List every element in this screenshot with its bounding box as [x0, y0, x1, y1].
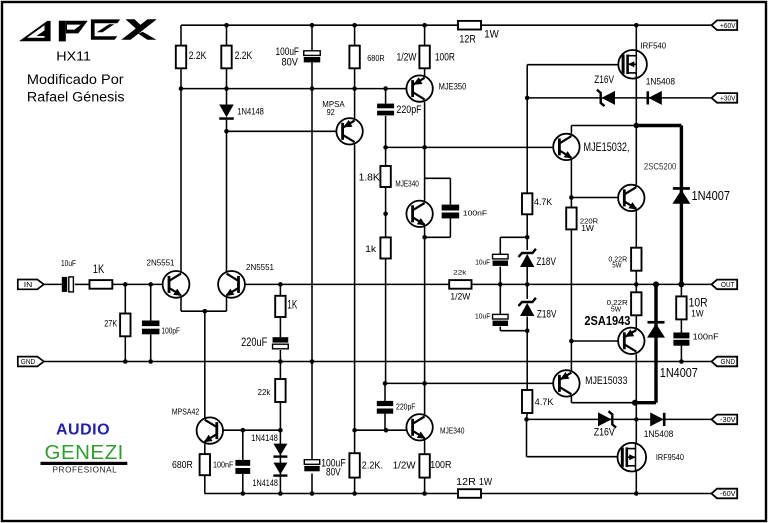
wire 10uF branch upper [500, 236, 527, 238]
label IRF9540 [656, 452, 684, 462]
logo GENEZI [45, 441, 124, 464]
svg-text:100nF: 100nF [693, 333, 719, 342]
wire 10uF branch lower [500, 330, 527, 332]
label IRF540 [641, 40, 667, 50]
transistor MJE15032 Q6 [553, 134, 579, 160]
label 4.7K R13 [535, 397, 555, 408]
label 1W R19 [479, 476, 492, 488]
resistor 4.7K R13 [522, 390, 532, 413]
junction node OUT bold lower [653, 281, 659, 287]
junction node bus88 / 680R MPSA92 [352, 86, 357, 91]
junction node 100pF top [148, 282, 153, 287]
resistor 680R R14 [200, 454, 210, 475]
wire 220uF C9 bottom lead [279, 350, 281, 362]
wire Q2 collector [226, 131, 228, 271]
wire MJE350 emitter [424, 102, 426, 148]
svg-text:Z18V: Z18V [536, 256, 556, 268]
label 0,22R R15b [607, 298, 629, 307]
svg-text:5W: 5W [612, 261, 622, 270]
wire IRF540 drain [635, 25, 637, 50]
svg-text:Modificado Por: Modificado Por [27, 72, 124, 87]
svg-text:1W: 1W [484, 28, 499, 40]
svg-text:2.2K: 2.2K [235, 50, 253, 62]
label MJE15032 [584, 142, 630, 154]
wire MJE15033 emitter down [570, 397, 572, 403]
label 1W R17 [691, 309, 703, 320]
label 10uF input [61, 258, 76, 268]
svg-text:PROFESIONAL: PROFESIONAL [53, 466, 118, 475]
label 0,22R R15a [608, 255, 627, 264]
resistor 220R R11 [566, 208, 576, 230]
svg-text:IRF9540: IRF9540 [656, 452, 684, 462]
capacitor 220uF C9 [273, 337, 289, 349]
wire IRF540 gate [527, 65, 621, 98]
label 1N5408 D3 [646, 76, 675, 87]
wire 680R R14 bottom lead [204, 475, 206, 493]
junction node OUT 0.22R [634, 282, 639, 287]
wire OUT row [472, 283, 712, 285]
mosfet IRF9540 Q13 [618, 443, 647, 472]
label Z18V D5 [537, 309, 557, 321]
wire 220pF C10 leads [384, 383, 386, 430]
svg-text:10uF: 10uF [61, 258, 76, 268]
junction node base row 220pF [383, 381, 388, 386]
wire Q2 emitter [226, 298, 228, 312]
svg-text:12R: 12R [456, 476, 476, 488]
label MJE15033 [585, 375, 627, 387]
label 1/2W R10 [450, 292, 470, 302]
junction node GND 220uF 22k [278, 359, 283, 364]
label 100R R18 [430, 459, 452, 471]
svg-text:680R: 680R [172, 459, 193, 471]
diode bold 1N4007 D7 [647, 321, 665, 338]
wire MPSA42 base [223, 429, 280, 431]
svg-text:1W: 1W [691, 309, 703, 320]
svg-text:2N5551: 2N5551 [147, 258, 175, 268]
resistor 27K [120, 314, 130, 337]
APEX logo letter A [19, 21, 51, 41]
title Modificado Por [27, 72, 124, 87]
resistor 1K input [90, 280, 113, 289]
tag +60V [712, 20, 738, 30]
svg-text:100R: 100R [435, 51, 455, 63]
wire after input cap [75, 283, 90, 285]
wire 10R leads [680, 284, 682, 332]
svg-text:2N5551: 2N5551 [246, 262, 274, 272]
junction node rail IRF9540 [634, 491, 639, 496]
label 1N5408 D9 [644, 429, 674, 440]
svg-text:92: 92 [327, 108, 336, 117]
svg-text:OUT: OUT [721, 282, 735, 289]
label 2N5551 Q2 [246, 262, 274, 272]
svg-text:1K: 1K [93, 264, 105, 276]
junction node bold upper [634, 123, 640, 129]
diode bold 1N4007 D6 [672, 187, 690, 204]
svg-text:1K: 1K [287, 300, 297, 312]
svg-text:IRF540: IRF540 [641, 40, 667, 50]
svg-text:80V: 80V [282, 56, 299, 68]
resistor 0.22R R15b [631, 292, 641, 315]
resistor 1K R8 [275, 296, 285, 317]
wire 680R R3 leads [354, 25, 356, 88]
wire Q1 collector [180, 89, 182, 272]
wire input to base [112, 283, 163, 285]
diode 1N4148 D11 [273, 463, 287, 477]
resistor 4.7K R12 [522, 193, 532, 214]
label 80V bottom [326, 467, 341, 479]
junction node -30V 4.7K gate [524, 417, 529, 422]
svg-text:2.2K: 2.2K [189, 50, 207, 62]
wire IRF540 source [635, 78, 637, 125]
APEX logo letter X [121, 19, 157, 40]
svg-text:MJE15033: MJE15033 [585, 375, 627, 387]
svg-text:MJE350: MJE350 [439, 82, 467, 92]
wire 2SA1943 base [571, 340, 618, 342]
label 4.7K R12 [534, 197, 553, 208]
label 680R R3 [367, 54, 385, 63]
tag GND left [18, 357, 44, 367]
label 100R R5 [435, 51, 455, 63]
svg-text:MJE340: MJE340 [395, 178, 419, 188]
wire 1K R8 leads [279, 284, 281, 337]
label 2.2K R16 [362, 460, 383, 472]
label Z18V D4 [536, 256, 556, 268]
svg-text:+60V: +60V [720, 23, 736, 30]
svg-text:1/2W: 1/2W [397, 51, 417, 63]
svg-text:12R: 12R [459, 34, 475, 46]
junction node GND 27K [123, 359, 128, 364]
wire bias chain bottom [526, 331, 528, 390]
svg-text:1k: 1k [365, 244, 377, 254]
wire 100nF C5 leads [242, 430, 244, 493]
junction node top rail / IRF540 drain [634, 23, 639, 28]
wire 2SA1943 collector [635, 354, 637, 419]
junction node 220pF / 1.8K [383, 145, 388, 150]
junction node GND 100nF right [679, 359, 684, 364]
zener Z16V D2 [597, 90, 615, 106]
capacitor 100uF 80V bottom [304, 460, 319, 472]
label 1N4148 D10 [251, 433, 278, 443]
tag +30V [712, 93, 738, 103]
resistor 2.2K R16 [349, 453, 359, 477]
label 1.8K R6 [359, 173, 381, 184]
tag -60V [712, 489, 738, 499]
label 1k R7 [365, 244, 377, 254]
label 220R R11 [580, 216, 599, 225]
wire 1N4148 D1 leads [226, 89, 228, 132]
APEX logo letter E [91, 19, 120, 39]
label 2SC5200 [644, 162, 677, 172]
junction node rail 100R [422, 491, 427, 496]
svg-text:10R: 10R [689, 298, 708, 310]
svg-text:5W: 5W [611, 304, 622, 313]
svg-text:1.8K: 1.8K [359, 173, 381, 184]
junction node top rail / 100R [422, 23, 427, 28]
wire 2.2K R1 leads [180, 25, 182, 88]
diode 1N4148 D10 [273, 444, 287, 458]
transistor MPSA92 Q3 [336, 118, 362, 144]
wire Q1 emitter [180, 298, 182, 312]
label 1N4148 D1 [237, 107, 264, 117]
label 10R R17 [689, 298, 708, 310]
wire MJE15032 emitter down [570, 160, 572, 208]
junction node bold lower join [632, 400, 638, 406]
svg-text:GND: GND [21, 359, 36, 366]
label 2.2K R1 [189, 50, 207, 62]
svg-text:100nF: 100nF [213, 460, 233, 470]
diode 1N5408 D9 [650, 412, 664, 426]
wire IRF9540 drain [635, 419, 637, 443]
wire MPSA42 emitter [204, 444, 206, 454]
junction node MPSA42 base 22k [278, 428, 283, 433]
label 1W R11 [581, 223, 594, 233]
junction node bus88 / R1 [179, 86, 184, 91]
resistor 680R R3 [349, 46, 359, 69]
label 27K [104, 319, 117, 329]
junction node MPSA42 base 100nF [241, 428, 246, 433]
wire 1k R7 leads [385, 214, 387, 384]
svg-text:1/2W: 1/2W [450, 292, 470, 302]
label 10uF C8 [475, 311, 491, 320]
svg-text:1N4007: 1N4007 [692, 189, 731, 203]
junction node D1 cathode junction [224, 129, 229, 134]
wire LTP tail [204, 311, 206, 417]
wire GND rail [44, 361, 712, 363]
junction node GND 100uF bus [310, 359, 315, 364]
wire +60V top rail left segment [181, 24, 458, 26]
resistor 12R R19 [458, 489, 481, 498]
svg-text:Z18V: Z18V [537, 309, 557, 321]
transistor MPSA42 Q11 [197, 417, 223, 443]
label MPSA 92a [322, 100, 345, 109]
tag GND right [712, 357, 738, 367]
resistor 2.2K R1 [176, 46, 186, 69]
svg-text:22k: 22k [453, 269, 467, 276]
wire 0.22R R15 leads [635, 284, 637, 327]
wire 100nF C12 bottom lead [680, 345, 682, 362]
wire MJE15032 collector to bold node [571, 125, 636, 127]
label 2.2K R2 [235, 50, 253, 62]
capacitor 220pF C10 [377, 401, 393, 414]
label MPSA42 [172, 407, 200, 417]
label 220uF C9 [241, 337, 267, 349]
junction node 2SA1943 base branch [569, 339, 574, 344]
capacitor 10uF C7 [493, 254, 509, 266]
svg-text:2.2K.: 2.2K. [362, 460, 383, 472]
wire 2.2K R2 leads [226, 25, 228, 88]
zener Z18V D5 [519, 298, 536, 316]
junction node 2SC5200 base [569, 195, 574, 200]
wire feedback row mid [245, 283, 450, 285]
svg-text:10uF: 10uF [475, 311, 491, 320]
wire 2SC5200 emitter [635, 211, 637, 284]
wire 2SC5200 collector [635, 126, 637, 185]
svg-text:4.7K: 4.7K [534, 197, 553, 208]
svg-text:-30V: -30V [720, 417, 736, 424]
label 92 [327, 108, 336, 117]
junction node top rail / 2.2K R2 [224, 23, 229, 28]
label 100nF C5 [213, 460, 233, 470]
wire 100R R5 leads [424, 25, 426, 75]
svg-text:1W: 1W [581, 223, 594, 233]
junction node rail 100uF [310, 491, 315, 496]
junction node MJE350 emitter row [422, 145, 427, 150]
label 12R R19 [456, 476, 476, 488]
wire 2.2K R16 leads [354, 430, 356, 493]
resistor 22k R10 [449, 280, 471, 289]
transistor MJE340 Q5 [406, 201, 432, 227]
label 80V top [282, 56, 299, 68]
label 12R R4 [459, 34, 475, 46]
svg-text:-60V: -60V [720, 491, 736, 498]
label 1/2W R5 [397, 51, 417, 63]
wire MPSA92 emitter long [354, 145, 356, 431]
svg-text:1/2W: 1/2W [393, 460, 416, 472]
svg-text:Z16V: Z16V [594, 427, 616, 439]
svg-text:+30V: +30V [720, 96, 736, 103]
transistor MJE15033 Q9 [553, 370, 579, 396]
label 5W R15b [611, 304, 622, 313]
junction node rail 100nF C5 [241, 491, 246, 496]
junction node rail 2.2K [352, 491, 357, 496]
wire 1.8K R6 leads [385, 147, 387, 213]
wire 10uF C8 leads [499, 284, 501, 330]
svg-text:AUDIO: AUDIO [56, 422, 110, 439]
wire 100uF C11 leads [311, 362, 313, 494]
svg-text:680R: 680R [367, 54, 385, 63]
svg-text:MJE15032,: MJE15032, [584, 142, 630, 154]
svg-text:2SC5200: 2SC5200 [644, 162, 677, 172]
capacitor 100nF C5 [235, 460, 250, 474]
tag OUT [712, 280, 738, 290]
wire 22k R9 leads [279, 362, 281, 431]
label 10uF C7 [475, 257, 490, 266]
wire IRF9540 source [635, 471, 637, 493]
svg-text:IN: IN [24, 282, 33, 289]
junction node gate corner +30V [525, 96, 530, 101]
wire 100uF C3 top leads [311, 25, 313, 88]
svg-text:HX11: HX11 [56, 50, 91, 64]
resistor 12R R4 [458, 21, 481, 30]
junction node 10uF mid [498, 282, 503, 287]
capacitor 220pF C4 [377, 104, 394, 116]
label 100pF C2 [162, 326, 181, 336]
diode 1N5408 D3 [648, 91, 662, 105]
junction node GND 100pF [148, 359, 153, 364]
zener Z18V D4 [519, 249, 536, 267]
wire MJE15032 collector up [570, 126, 572, 134]
label 1W R4 [484, 28, 499, 40]
wire bold +boost to 1N4007 [636, 124, 681, 127]
resistor 22k R9 [275, 379, 285, 402]
wire 220R to drivers [570, 229, 572, 370]
svg-text:220pF: 220pF [396, 104, 421, 116]
junction node rail diode string [278, 491, 283, 496]
transistor MJE350 Q4 [406, 75, 432, 101]
diode 1N4148 D1 [219, 105, 234, 120]
label 2SA1943 [584, 314, 630, 328]
logo PROFESIONAL [53, 466, 118, 475]
wire Z18V D5 leads [526, 284, 528, 330]
wire 100pF C2 leads [150, 284, 152, 361]
svg-text:GND: GND [721, 359, 736, 366]
wire MJE340 Q10 emitter [424, 440, 426, 493]
label 5W R15a [612, 261, 622, 270]
wire 4.7K R13 bottom lead [526, 413, 529, 419]
junction node 220pF C10 bottom [384, 428, 389, 433]
wire upper bus y=88.6 [181, 88, 406, 90]
junction node 100nF bottom loop [422, 235, 427, 240]
svg-text:Z16V: Z16V [594, 74, 614, 86]
junction node -30V drain [634, 417, 638, 421]
capacitor 100nF C6 [442, 205, 460, 219]
wire MJE340 base bottom [355, 429, 407, 431]
wire VAS row y=147.4 [386, 146, 554, 148]
transistor 2SA1943 Q8 [618, 328, 644, 354]
junction node bias mid [525, 282, 530, 287]
mosfet IRF540 Q12 [618, 50, 647, 79]
label 1K input [93, 264, 105, 276]
wire 2SC5200 base [571, 197, 618, 199]
wire MJE340 Q10 collector [424, 383, 426, 414]
wire MJE340 Q5 emitter long [424, 227, 426, 383]
svg-text:1N4148: 1N4148 [251, 433, 278, 443]
wire bold -boost bottom [635, 401, 656, 404]
label Z16V D2 [594, 74, 614, 86]
svg-text:4.7K: 4.7K [535, 397, 555, 408]
tag -30V [712, 415, 738, 425]
wire MJE15033 base row [385, 382, 553, 384]
wire LTP emitter join [181, 310, 227, 312]
APEX logo letter P [59, 21, 88, 42]
junction node MJE340 mid base [383, 212, 388, 217]
junction node top rail / 680R [352, 23, 357, 28]
junction node 1K R8 top [278, 282, 283, 287]
title Rafael Genesis [27, 90, 125, 105]
junction node base row MJE340 [422, 381, 427, 386]
wire +30V row [527, 97, 711, 99]
wire 100nF loop bottom [425, 236, 451, 238]
svg-text:1W: 1W [479, 476, 492, 488]
svg-text:Rafael Génesis: Rafael Génesis [27, 90, 125, 105]
svg-text:10uF: 10uF [475, 257, 490, 266]
label 100nF C6 [463, 208, 488, 217]
label 100nF C12 [693, 333, 719, 342]
capacitor 100nF C12 [673, 333, 689, 346]
resistor 0.22R R15a [631, 248, 641, 271]
svg-text:1N5408: 1N5408 [646, 76, 675, 87]
label MJE350 [439, 82, 467, 92]
junction node LTP tail [203, 309, 208, 314]
label 220pF C4 [396, 104, 421, 116]
svg-text:100nF: 100nF [463, 208, 488, 217]
svg-text:1N5408: 1N5408 [644, 429, 674, 440]
transistor 2N5551 Q1 [163, 271, 190, 298]
wire MPSA92 base line [227, 130, 337, 132]
svg-text:27K: 27K [104, 319, 117, 329]
wire bias chain top [526, 98, 528, 193]
wire -60V bottom rail left [205, 493, 459, 495]
label MJE340 Q10 [440, 426, 465, 436]
wire +60V top rail right segment [481, 24, 712, 26]
wire MJE15033 emitter [571, 402, 635, 404]
svg-text:MJE340: MJE340 [440, 426, 465, 436]
resistor 10R R17 [676, 296, 686, 319]
svg-text:100pF: 100pF [162, 326, 181, 336]
tag IN [18, 280, 44, 290]
logo underline [41, 462, 128, 465]
resistor 1.8K R6 [380, 166, 390, 187]
